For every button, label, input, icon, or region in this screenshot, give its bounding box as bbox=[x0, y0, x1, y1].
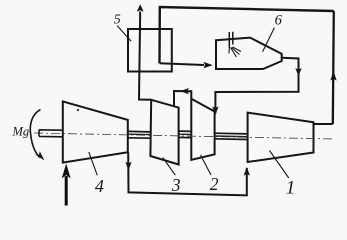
inlet air arrow (bold) below compressor 4 bbox=[65, 176, 68, 206]
scan speck inside compressor 4 bbox=[77, 109, 79, 111]
burner spray lines bbox=[229, 47, 241, 57]
label 2 + leader bbox=[201, 155, 212, 175]
machine 3 bbox=[150, 100, 178, 165]
wire: top loop line (turbine 1 exit to regenerator) bbox=[160, 7, 334, 63]
label 5 + leader bbox=[117, 26, 131, 42]
svg-text:5: 5 bbox=[114, 12, 121, 27]
svg-text:4: 4 bbox=[95, 176, 104, 196]
combustion chamber 6 bbox=[216, 38, 282, 69]
shaft between 2 and 1 bbox=[215, 133, 248, 139]
turbine 1 bbox=[248, 113, 314, 162]
svg-text:3: 3 bbox=[171, 175, 181, 195]
wire: bridge duct from machine 2 to machine 3 bbox=[174, 91, 191, 107]
label 6 + leader bbox=[263, 28, 275, 52]
svg-text:6: 6 bbox=[275, 13, 283, 29]
burner injector tube bbox=[229, 32, 233, 48]
shaft between 4 and 3 bbox=[128, 131, 151, 138]
arrowhead exhaust up bbox=[137, 4, 144, 12]
shaft stub left with Mg input bbox=[39, 130, 63, 137]
wire: bottom duct from compressor 4 to turbine 1 bbox=[128, 152, 247, 195]
svg-text:1: 1 bbox=[286, 178, 296, 199]
arrowhead up on duct into 1 bbox=[244, 167, 250, 176]
label 1 + leader bbox=[270, 151, 289, 179]
wire: right loop vertical bbox=[333, 11, 334, 124]
wire: CC outlet down, across, down into turbine 2 bbox=[215, 58, 298, 114]
wire: feed line regenerator to combustion chamber bbox=[160, 63, 205, 65]
compressor 4 bbox=[63, 101, 128, 162]
arrowhead up on right loop bbox=[330, 71, 336, 81]
label 4 + leader bbox=[89, 152, 98, 175]
shaft centerline (dash-dot) bbox=[34, 133, 335, 139]
label 3 + leader bbox=[163, 158, 176, 176]
shaft between 3 and 2 bbox=[179, 131, 192, 138]
machine 2 bbox=[191, 99, 214, 160]
heat exchanger 5 (regenerator rectangle) bbox=[128, 29, 172, 72]
arrowhead down into turbine 2 bbox=[212, 106, 218, 115]
wire: connector turbine 1 top-right to loop bbox=[314, 123, 333, 125]
torque arrow Mg (curved) bbox=[30, 110, 40, 158]
svg-text:2: 2 bbox=[210, 174, 219, 194]
wire: exhaust line through regenerator up to atmosphere bbox=[139, 12, 151, 100]
svg-text:Mg: Mg bbox=[12, 124, 30, 138]
arrowhead right into CC bbox=[203, 62, 213, 68]
arrowhead down on duct from 4 bbox=[125, 162, 131, 171]
arrowhead down on CC outlet bbox=[295, 68, 301, 76]
arrowhead left on bridge bbox=[180, 88, 189, 94]
